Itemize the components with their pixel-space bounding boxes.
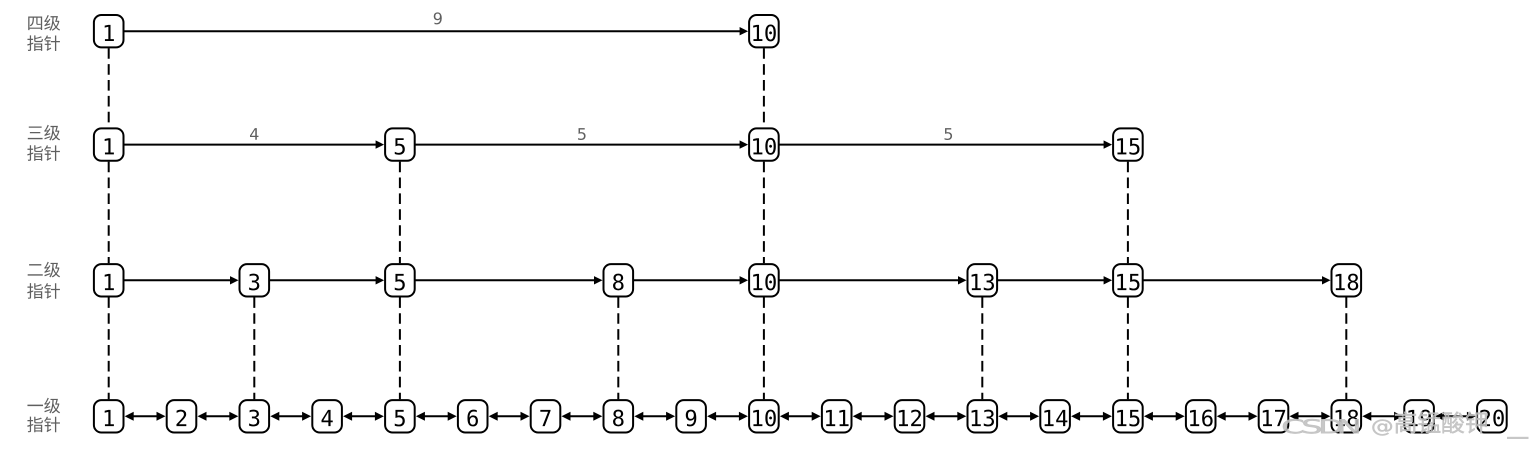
dashed link col 3: level 2 to level 1 <box>253 297 255 399</box>
arrow level 2: node 15 to node 18 <box>1143 276 1331 284</box>
node 10 (level 3) <box>749 128 779 160</box>
dashed link col 1: level 3 to level 2 <box>108 162 110 264</box>
double arrow level 1: node 6 and node 7 <box>489 412 530 421</box>
node 8 (level 1) <box>604 400 634 432</box>
dashed link col 10: level 3 to level 2 <box>763 162 765 264</box>
node 18 (level 1) <box>1332 400 1362 432</box>
arrow level 3: node 5 to node 10 <box>415 140 748 148</box>
node 16 (level 1) <box>1186 400 1216 432</box>
double arrow level 1: node 4 and node 5 <box>343 412 384 421</box>
row label 一级指针 (level 1) <box>27 398 60 433</box>
row label 四级指针 (level 4) <box>27 15 60 51</box>
node 10 (level 2) <box>749 264 779 296</box>
double arrow level 1: node 12 and node 13 <box>926 412 967 421</box>
node 12 (level 1) <box>895 400 925 432</box>
edge span label 5 <box>578 128 586 140</box>
arrow level 2: node 8 to node 10 <box>633 276 748 284</box>
dashed link col 5: level 2 to level 1 <box>399 297 401 399</box>
node 15 (level 2) <box>1113 264 1143 296</box>
watermark CSDN @高锰酸钾_ <box>1283 412 1528 439</box>
node 9 (level 1) <box>676 400 706 432</box>
dashed link col 10: level 2 to level 1 <box>763 297 765 399</box>
node 1 (level 2) <box>94 264 124 296</box>
node 1 (level 4) <box>94 15 124 47</box>
double arrow level 1: node 2 and node 3 <box>198 412 239 421</box>
node 19 (level 1) <box>1404 400 1434 432</box>
dashed link col 1: level 4 to level 3 <box>108 48 110 127</box>
dashed link col 18: level 2 to level 1 <box>1345 297 1347 399</box>
node 11 (level 1) <box>822 400 852 432</box>
node 6 (level 1) <box>458 400 488 432</box>
arrow level 2: node 10 to node 13 <box>779 276 967 284</box>
node 17 (level 1) <box>1259 400 1289 432</box>
node 3 (level 1) <box>240 400 270 432</box>
double arrow level 1: node 19 and node 20 <box>1435 412 1476 421</box>
node 10 (level 1) <box>749 400 779 432</box>
dashed link col 10: level 4 to level 3 <box>763 48 765 127</box>
node 13 (level 1) <box>968 400 998 432</box>
double arrow level 1: node 14 and node 15 <box>1071 412 1112 421</box>
edge span label 4 <box>250 128 258 140</box>
node 8 (level 2) <box>604 264 634 296</box>
node 5 (level 1) <box>385 400 415 432</box>
dashed link col 15: level 3 to level 2 <box>1127 162 1129 264</box>
edge span label 9 <box>434 12 442 24</box>
arrow level 4: node 1 to node 10 <box>124 27 748 35</box>
dashed link col 15: level 2 to level 1 <box>1127 297 1129 399</box>
node 15 (level 3) <box>1113 128 1143 160</box>
edge span label 5 <box>945 128 953 140</box>
arrow level 2: node 5 to node 8 <box>415 276 603 284</box>
node 4 (level 1) <box>312 400 342 432</box>
double arrow level 1: node 7 and node 8 <box>562 412 603 421</box>
row label 二级指针 (level 2) <box>27 262 60 299</box>
node 5 (level 2) <box>385 264 415 296</box>
node 10 (level 4) <box>749 15 779 47</box>
node 15 (level 1) <box>1113 400 1143 432</box>
arrow level 2: node 1 to node 3 <box>124 276 239 284</box>
node 5 (level 3) <box>385 128 415 160</box>
node 2 (level 1) <box>167 400 197 432</box>
row label 三级指针 (level 3) <box>27 125 60 161</box>
node 3 (level 2) <box>240 264 270 296</box>
node 1 (level 3) <box>94 128 124 160</box>
arrow level 3: node 1 to node 5 <box>124 140 384 148</box>
double arrow level 1: node 8 and node 9 <box>634 412 675 421</box>
double arrow level 1: node 3 and node 4 <box>270 412 311 421</box>
double arrow level 1: node 11 and node 12 <box>853 412 894 421</box>
double arrow level 1: node 10 and node 11 <box>780 412 821 421</box>
node 7 (level 1) <box>531 400 561 432</box>
node 13 (level 2) <box>968 264 998 296</box>
double arrow level 1: node 1 and node 2 <box>125 412 166 421</box>
double arrow level 1: node 17 and node 18 <box>1290 412 1331 421</box>
node 1 (level 1) <box>94 400 124 432</box>
dashed link col 1: level 2 to level 1 <box>108 297 110 399</box>
dashed link col 5: level 3 to level 2 <box>399 162 401 264</box>
double arrow level 1: node 13 and node 14 <box>998 412 1039 421</box>
arrow level 2: node 13 to node 15 <box>997 276 1112 284</box>
double arrow level 1: node 5 and node 6 <box>416 412 457 421</box>
dashed link col 8: level 2 to level 1 <box>617 297 619 399</box>
arrow level 3: node 10 to node 15 <box>779 140 1112 148</box>
node 20 (level 1) <box>1477 400 1507 432</box>
double arrow level 1: node 9 and node 10 <box>707 412 748 421</box>
dashed link col 13: level 2 to level 1 <box>981 297 983 399</box>
node 14 (level 1) <box>1040 400 1070 432</box>
node 18 (level 2) <box>1332 264 1362 296</box>
arrow level 2: node 3 to node 5 <box>269 276 384 284</box>
double arrow level 1: node 15 and node 16 <box>1144 412 1185 421</box>
double arrow level 1: node 18 and node 19 <box>1362 412 1403 421</box>
double arrow level 1: node 16 and node 17 <box>1217 412 1258 421</box>
